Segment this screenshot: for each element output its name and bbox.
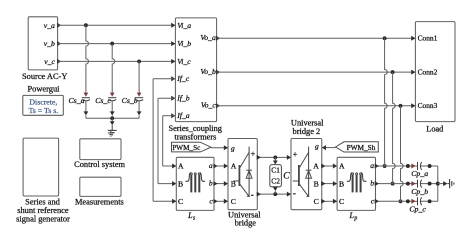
svg-text:Vo_b: Vo_b [200, 67, 216, 76]
svg-text:If_c: If_c [176, 74, 190, 83]
svg-text:B: B [178, 179, 183, 188]
svg-text:Cp_b: Cp_b [411, 187, 428, 196]
svg-text:Cs_a: Cs_a [68, 96, 84, 105]
svg-text:signal generator: signal generator [16, 215, 70, 224]
svg-text:B: B [339, 179, 344, 188]
svg-text:+: + [251, 149, 256, 158]
svg-text:Cs_b: Cs_b [122, 96, 138, 105]
svg-text:Cp_c: Cp_c [409, 205, 426, 214]
svg-text:b: b [370, 179, 374, 188]
svg-text:Cs_c: Cs_c [95, 96, 111, 105]
svg-text:A: A [231, 162, 237, 171]
svg-text:PWM_Sh: PWM_Sh [347, 143, 376, 152]
svg-text:Vi_a: Vi_a [177, 21, 191, 30]
svg-text:p: p [353, 216, 357, 222]
svg-text:B: B [314, 179, 319, 188]
svg-text:v_a: v_a [44, 21, 55, 30]
svg-text:Vi_b: Vi_b [177, 39, 191, 48]
svg-text:bridge 2: bridge 2 [293, 127, 321, 136]
svg-text:g: g [315, 142, 319, 151]
svg-text:A: A [313, 162, 319, 171]
svg-text:Ts = Ts s.: Ts = Ts s. [29, 106, 59, 115]
svg-text:Conn2: Conn2 [418, 68, 438, 77]
svg-text:g: g [231, 143, 235, 152]
svg-text:If_b: If_b [176, 94, 190, 103]
svg-text:bridge: bridge [235, 218, 257, 227]
svg-text:Conn3: Conn3 [418, 101, 438, 110]
svg-text:transformers: transformers [174, 133, 216, 142]
svg-text:v_b: v_b [44, 39, 55, 48]
svg-text:C: C [314, 197, 319, 206]
svg-text:+: + [293, 150, 298, 159]
svg-text:If_a: If_a [176, 111, 190, 120]
svg-text:a: a [370, 161, 374, 170]
svg-text:PWM_Sc: PWM_Sc [172, 144, 200, 152]
svg-text:v_c: v_c [44, 57, 55, 66]
svg-text:Control system: Control system [74, 160, 125, 169]
svg-text:Conn1: Conn1 [418, 34, 438, 43]
svg-text:C2: C2 [271, 177, 280, 186]
svg-text:C: C [231, 197, 236, 206]
svg-text:Vo_a: Vo_a [200, 33, 216, 42]
svg-text:Cp_a: Cp_a [411, 169, 428, 178]
svg-text:Source AC-Y: Source AC-Y [22, 72, 67, 81]
svg-text:-: - [293, 188, 296, 198]
svg-text:Measurements: Measurements [75, 197, 124, 206]
svg-text:C1: C1 [271, 165, 280, 174]
svg-text:Vi_c: Vi_c [177, 57, 191, 66]
svg-text:C: C [339, 197, 344, 206]
svg-text:Powergui: Powergui [28, 85, 61, 94]
svg-text:Load: Load [426, 124, 444, 133]
svg-text:b: b [209, 179, 213, 188]
svg-text:C: C [178, 197, 183, 206]
svg-text:a: a [209, 161, 213, 170]
svg-text:A: A [339, 162, 345, 171]
svg-text:-: - [251, 190, 254, 200]
svg-text:Vo_c: Vo_c [201, 101, 217, 110]
svg-text:C: C [283, 172, 290, 182]
svg-text:A: A [178, 162, 184, 171]
